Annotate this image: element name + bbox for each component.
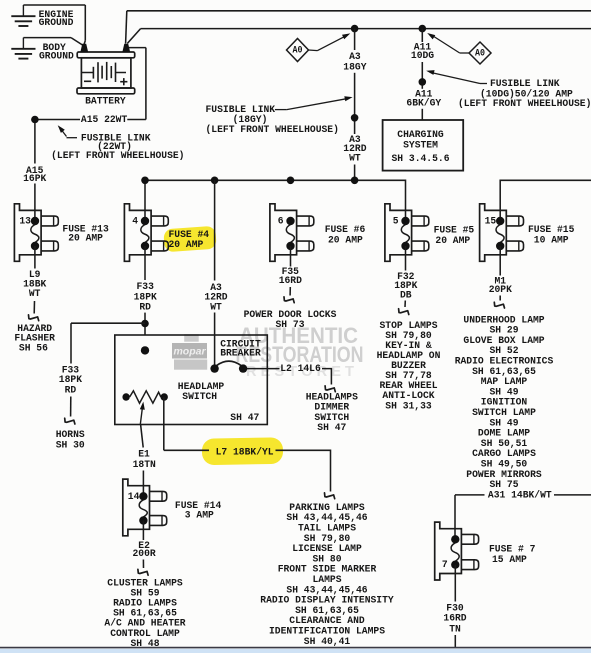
svg-text:(LEFT FRONT WHEELHOUSE): (LEFT FRONT WHEELHOUSE) [206,124,339,136]
watermark: mopar authentic restoration [172,323,364,380]
off-page arrow [325,493,335,499]
rheostat (headlamp switch dimmer) [122,391,167,403]
wire A31 14BK/WT [455,494,485,496]
fusible link (18GY) callout arrow [275,109,287,111]
fuse #5 [385,204,429,261]
wire E2 200R [142,521,144,541]
wire: main fuse bus [145,180,406,221]
wire: battery + to line 2 [127,29,140,44]
wire A3 18GY [354,29,356,50]
wire to fuse #14 [142,471,144,497]
svg-text:13: 13 [19,216,31,228]
rheostat wiper arrow [140,406,142,425]
bottom divider line [0,647,591,649]
wire down to fuse #7 [454,495,456,539]
svg-text:10DG: 10DG [411,50,434,62]
svg-text:4: 4 [132,216,138,228]
svg-text:16PK: 16PK [23,173,47,185]
wire [499,296,501,301]
fusible link (10DG) callout arrow [430,72,480,83]
node: fusible link splice on A11 [419,78,427,86]
svg-text:A31 14BK/WT: A31 14BK/WT [488,489,552,501]
svg-text:DB: DB [400,290,412,302]
svg-text:RD: RD [139,302,151,314]
svg-text:A0: A0 [293,44,303,56]
wire [276,450,331,491]
wire A11 [421,62,423,89]
fuse #15 [480,204,524,261]
circuit breaker [210,361,247,373]
wire A3 [354,73,356,134]
svg-text:6: 6 [278,216,284,228]
svg-text:SH 47: SH 47 [317,422,346,434]
svg-text:WT: WT [29,288,41,300]
svg-text:WT: WT [349,153,361,165]
wire [214,313,216,369]
svg-text:10 AMP: 10 AMP [534,235,569,247]
charging system box [383,120,464,171]
svg-text:GROUND: GROUND [39,17,74,29]
svg-text:SH 30: SH 30 [56,440,85,452]
wire L9 18BK WT [34,246,36,269]
off-page arrow [399,309,409,315]
wire: top feed line 2 [141,28,591,30]
wire: right bus to fuse #15 [500,180,591,221]
wire F35 16RD [290,246,292,267]
off-page arrow [284,297,294,303]
battery [77,44,135,94]
svg-text:SH 56: SH 56 [19,342,48,354]
connector A0 (right) [427,33,491,64]
svg-text:20 AMP: 20 AMP [68,232,103,244]
svg-text:20 AMP: 20 AMP [435,235,470,247]
svg-text:SYSTEM: SYSTEM [403,139,438,151]
off-page arrow [138,569,148,575]
svg-text:(LEFT FRONT WHEELHOUSE): (LEFT FRONT WHEELHOUSE) [458,98,591,110]
node: F33 branch junction [141,320,149,328]
wire L7 18BK/YL [163,397,165,450]
node: A11 tap on line 2 [419,25,427,33]
wire [142,560,144,569]
svg-text:200R: 200R [133,548,157,560]
fuse #13 [14,204,58,261]
wire F30 16RD TN [454,565,456,602]
node: bus corner at fuse #4 [141,177,149,185]
svg-text:7: 7 [442,559,448,571]
svg-text:SH 73: SH 73 [276,319,305,331]
svg-text:mopar: mopar [173,346,206,358]
svg-text:GROUND: GROUND [39,51,74,63]
wire F33 to junction [144,313,146,335]
svg-text:WT: WT [210,302,222,314]
svg-text:(LEFT FRONT WHEELHOUSE): (LEFT FRONT WHEELHOUSE) [51,150,184,162]
svg-text:20PK: 20PK [489,284,513,296]
headlamp switch box [115,335,267,425]
wire F32 18PK DB [405,246,407,271]
svg-text:L2 14L6: L2 14L6 [280,363,321,375]
body ground [11,38,82,59]
svg-text:5: 5 [393,216,399,228]
bottom blue strip [0,649,591,653]
svg-text:6BK/GY: 6BK/GY [406,97,442,109]
wire A15 22WT from battery [129,47,146,49]
svg-text:3 AMP: 3 AMP [185,509,214,521]
wire L2 14LG [247,368,280,370]
fusible link (22WT) callout arrow [61,129,67,137]
fuse #4 [124,204,168,261]
node: A3 tap on line 2 [351,25,359,33]
wire A11 to charging system [421,109,423,120]
wire F33 18PK RD [144,246,146,280]
wire branch to horns [71,322,145,324]
fuse #6 [270,204,314,261]
wire to horns [70,397,72,417]
wire E1 18TN [141,425,144,448]
svg-text:15: 15 [485,216,497,228]
svg-text:L7 18BK/YL: L7 18BK/YL [216,446,274,458]
wire to hazard flasher [33,301,35,314]
svg-text:20 AMP: 20 AMP [328,234,363,246]
node: A15 splice [31,116,39,124]
node: bus tap A3 [351,177,359,185]
highlight L7 18BK/YL label [202,437,283,465]
svg-text:18TN: 18TN [133,459,156,471]
off-page arrow [494,302,504,308]
svg-text:14: 14 [128,491,140,503]
svg-text:20 AMP: 20 AMP [169,239,204,251]
node: bus tap to circuit breaker [211,177,219,185]
svg-text:A15 22WT: A15 22WT [81,114,127,126]
wire: battery + to line 1 [126,11,127,44]
off-page arrow [29,315,39,321]
svg-text:BATTERY: BATTERY [85,95,126,107]
wire A3 12RD WT to circuit breaker [214,180,216,280]
connector A0 (left) [287,33,351,61]
svg-text:SH 40,41: SH 40,41 [304,636,350,648]
node: bus tap fuse #6 [287,177,295,185]
svg-text:SH 47: SH 47 [230,412,259,424]
svg-text:16RD: 16RD [279,275,302,287]
wire [554,494,591,496]
wire: top feed line 1 (from battery + ) [127,10,591,12]
wire [289,287,291,296]
wire A11 10DG [421,29,423,42]
node: headlamp switch feed terminal [141,346,149,354]
wire [404,301,406,308]
svg-text:SH 31,33: SH 31,33 [385,400,431,412]
off-page arrow [65,418,75,424]
wire [322,369,331,385]
node: fusible link splice on A3 [351,114,359,122]
wire A15 16PK [34,123,36,164]
fuse #7 [435,522,479,580]
fuse #14 [123,479,167,536]
svg-text:BREAKER: BREAKER [220,347,261,359]
svg-text:TN: TN [449,623,461,635]
off-page arrow [325,386,335,392]
svg-text:A0: A0 [475,47,485,59]
wire to bottom [454,635,456,647]
svg-text:15 AMP: 15 AMP [492,554,527,566]
wire M1 20PK [499,246,501,276]
svg-text:18GY: 18GY [343,61,367,73]
svg-text:SWITCH: SWITCH [182,391,217,403]
engine ground [11,5,85,45]
svg-text:RD: RD [65,385,77,397]
svg-text:SH 3.4.5.6: SH 3.4.5.6 [392,153,450,165]
wire A3 to bus [354,165,356,181]
highlight fuse #4 label [163,226,216,253]
